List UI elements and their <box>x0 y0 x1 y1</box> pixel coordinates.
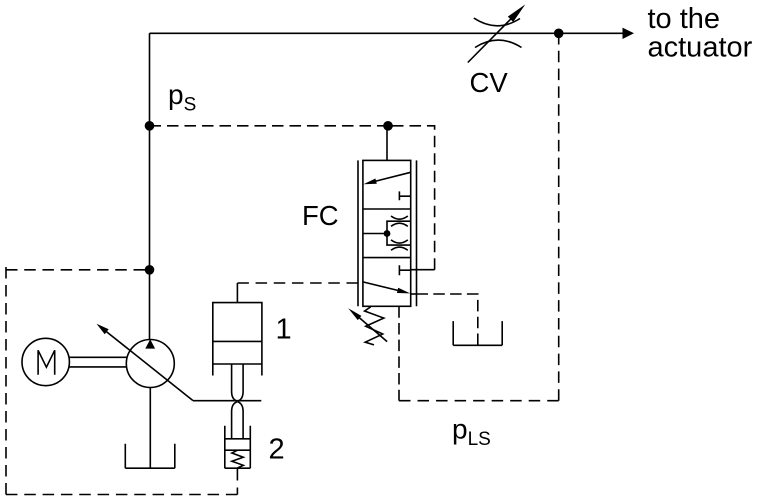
svg-text:pS: pS <box>168 79 196 116</box>
svg-text:1: 1 <box>276 314 292 346</box>
valve FC top port <box>386 130 388 161</box>
valve FC divider lower <box>363 257 411 259</box>
tank symbol right <box>453 321 502 345</box>
wire LS dashed right vertical <box>558 38 560 401</box>
piston rod upper with ball end <box>232 364 244 401</box>
node junction dot enclosure top <box>145 265 155 275</box>
plunger 2 piston plate <box>225 439 251 450</box>
linkage horizontal <box>193 400 261 402</box>
wire supply top horizontal <box>150 32 624 34</box>
valve FC bottom section flow arrow <box>363 282 410 294</box>
shaft double line <box>69 357 126 367</box>
cylinder 1 piston bottom <box>213 363 262 365</box>
valve FC divider upper <box>363 208 411 210</box>
plunger 2 housing <box>225 426 251 469</box>
cylinder 1 piston top <box>213 340 262 342</box>
pump variable arrow diagonal <box>97 324 194 401</box>
wire pump suction <box>149 388 151 469</box>
plunger 2 spring <box>232 450 243 468</box>
valve FC outer line right <box>416 160 418 306</box>
wire pS pilot dashed <box>150 125 389 127</box>
wire FC to tank dashed <box>417 294 478 345</box>
wire FC pilot dashed right loop <box>392 126 435 270</box>
enclosure dashed boundary top edge <box>6 269 145 271</box>
valve FC top section flow arrow <box>364 172 411 184</box>
valve FC orifice arcs bottom <box>391 240 408 250</box>
valve FC compensator inner box <box>387 221 411 245</box>
valve FC body box <box>363 160 411 306</box>
valve FC right tank port stub <box>411 293 417 295</box>
node junction dot FC top <box>383 121 393 131</box>
svg-text:CV: CV <box>470 67 509 98</box>
valve FC middle pilot line <box>363 233 387 235</box>
svg-text:to the: to the <box>648 3 721 35</box>
wire FC pilot stub solid <box>411 269 435 271</box>
valve FC bottom section blocked port <box>399 265 410 275</box>
valve FC top section blocked port <box>399 191 410 200</box>
cylinder 1 barrel <box>213 303 262 376</box>
svg-text:pLS: pLS <box>452 413 491 450</box>
variable orifice CV arrow <box>468 4 526 62</box>
node dot FC compensator <box>384 230 391 237</box>
svg-text:FC: FC <box>302 200 339 231</box>
valve FC orifice arcs top <box>391 216 408 226</box>
wire plunger drain dashed <box>236 488 238 495</box>
pump flow triangle <box>145 339 155 348</box>
valve FC spring adjust arrow <box>348 308 387 341</box>
tank symbol pump <box>125 444 175 469</box>
svg-text:2: 2 <box>269 433 285 465</box>
node junction dot pS on supply <box>145 121 155 131</box>
enclosure dashed boundary left edge <box>5 267 7 495</box>
valve FC spring <box>365 307 384 345</box>
wire LS dashed bottom horizontal <box>399 400 559 402</box>
cylinder 1 top port <box>236 283 238 303</box>
svg-text:actuator: actuator <box>648 32 753 64</box>
pump circle <box>126 340 174 388</box>
motor letter M <box>38 350 55 374</box>
wire LS dashed down from FC bottom port <box>398 306 400 400</box>
plunger 2 drain stub <box>236 468 238 480</box>
variable orifice CV arc upper <box>474 18 520 26</box>
enclosure dashed boundary bottom edge <box>6 494 237 496</box>
piston rod lower with ball end <box>232 402 244 439</box>
valve FC outer line left <box>357 160 359 306</box>
variable orifice CV arc lower <box>475 40 522 47</box>
wire supply left vertical <box>149 33 151 340</box>
node junction dot CV outlet <box>554 29 564 39</box>
arrowhead to actuator <box>623 28 635 39</box>
motor M circle <box>22 338 69 385</box>
wire cylinder1 to FC dashed <box>237 282 358 284</box>
